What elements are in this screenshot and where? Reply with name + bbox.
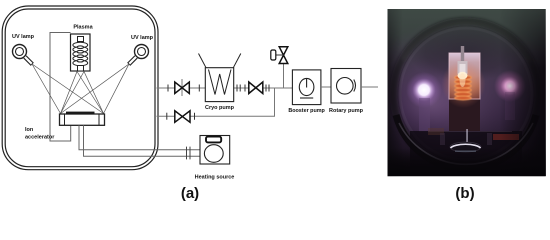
bias wire plasma to stage — [50, 33, 71, 142]
booster pump box — [292, 70, 321, 105]
right lamp pillar — [505, 92, 515, 120]
thermocouple pin — [466, 129, 468, 142]
pedestal — [449, 97, 480, 131]
murky top interior — [408, 22, 524, 82]
ambient glow — [362, 18, 550, 188]
photo background — [388, 9, 546, 176]
cryo pump box — [205, 68, 233, 102]
pipe flange ticks — [167, 85, 269, 120]
chamber outer wall — [2, 6, 158, 170]
rotary pump box — [331, 69, 361, 104]
cryo pump W element — [209, 70, 232, 95]
relief valve V4 (vertical) — [271, 47, 288, 64]
rod — [461, 46, 464, 62]
dish — [450, 142, 481, 152]
plasma coil — [73, 37, 88, 72]
red streak — [493, 134, 519, 140]
svg-text:UV lamp: UV lamp — [12, 34, 35, 40]
platform edge — [428, 131, 512, 133]
coil turns — [455, 75, 472, 100]
plasma source box — [71, 34, 91, 71]
svg-text:Rotary pump: Rotary pump — [329, 108, 364, 114]
platform shadow — [410, 131, 522, 176]
beam rays — [32, 64, 129, 114]
chamber inner wall — [5, 9, 155, 167]
svg-text:UV lamp: UV lamp — [131, 35, 154, 41]
glass cell — [449, 53, 480, 99]
UV lamp left — [13, 45, 33, 65]
bottom bypass pipe — [157, 88, 275, 116]
cryo funnel lines — [199, 54, 241, 68]
valve V1 (with stem) — [175, 79, 190, 96]
stage pedestal pipes to heater — [79, 125, 200, 156]
electrode — [458, 61, 468, 74]
bottom fade — [388, 148, 546, 176]
heating source box — [200, 136, 230, 165]
valve V2 — [249, 82, 263, 94]
stage posts — [440, 133, 445, 145]
sample bar — [66, 112, 95, 115]
top pipe chamber to pumps — [157, 87, 293, 89]
left lamp glow — [406, 72, 442, 108]
svg-text:(b): (b) — [455, 185, 474, 202]
svg-text:Plasma: Plasma — [73, 25, 93, 31]
ion accelerator stage — [60, 114, 105, 125]
valve V3 (bypass) — [175, 111, 190, 123]
right lamp glow — [494, 70, 526, 102]
left lamp pillar — [419, 98, 430, 132]
heater top block — [206, 137, 221, 143]
svg-text:Booster pump: Booster pump — [288, 108, 325, 114]
left vignette — [388, 9, 403, 176]
svg-text:Heating source: Heating source — [195, 175, 235, 181]
svg-text:(a): (a) — [181, 185, 199, 202]
booster-rotary pipe — [321, 86, 331, 88]
UV lamp right — [129, 45, 149, 65]
left brown structure — [428, 128, 444, 135]
exhaust line — [361, 86, 378, 88]
right vignette — [500, 9, 546, 176]
svg-text:Cryo pump: Cryo pump — [205, 105, 235, 111]
svg-text:accelerator: accelerator — [25, 135, 55, 141]
coil glow — [442, 60, 486, 108]
relief valve riser — [283, 64, 285, 89]
bottom rim — [396, 115, 536, 169]
hot spot — [458, 72, 468, 80]
chamber ring — [394, 22, 539, 167]
svg-text:Ion: Ion — [25, 127, 34, 133]
heater pipe flanges — [187, 147, 191, 160]
